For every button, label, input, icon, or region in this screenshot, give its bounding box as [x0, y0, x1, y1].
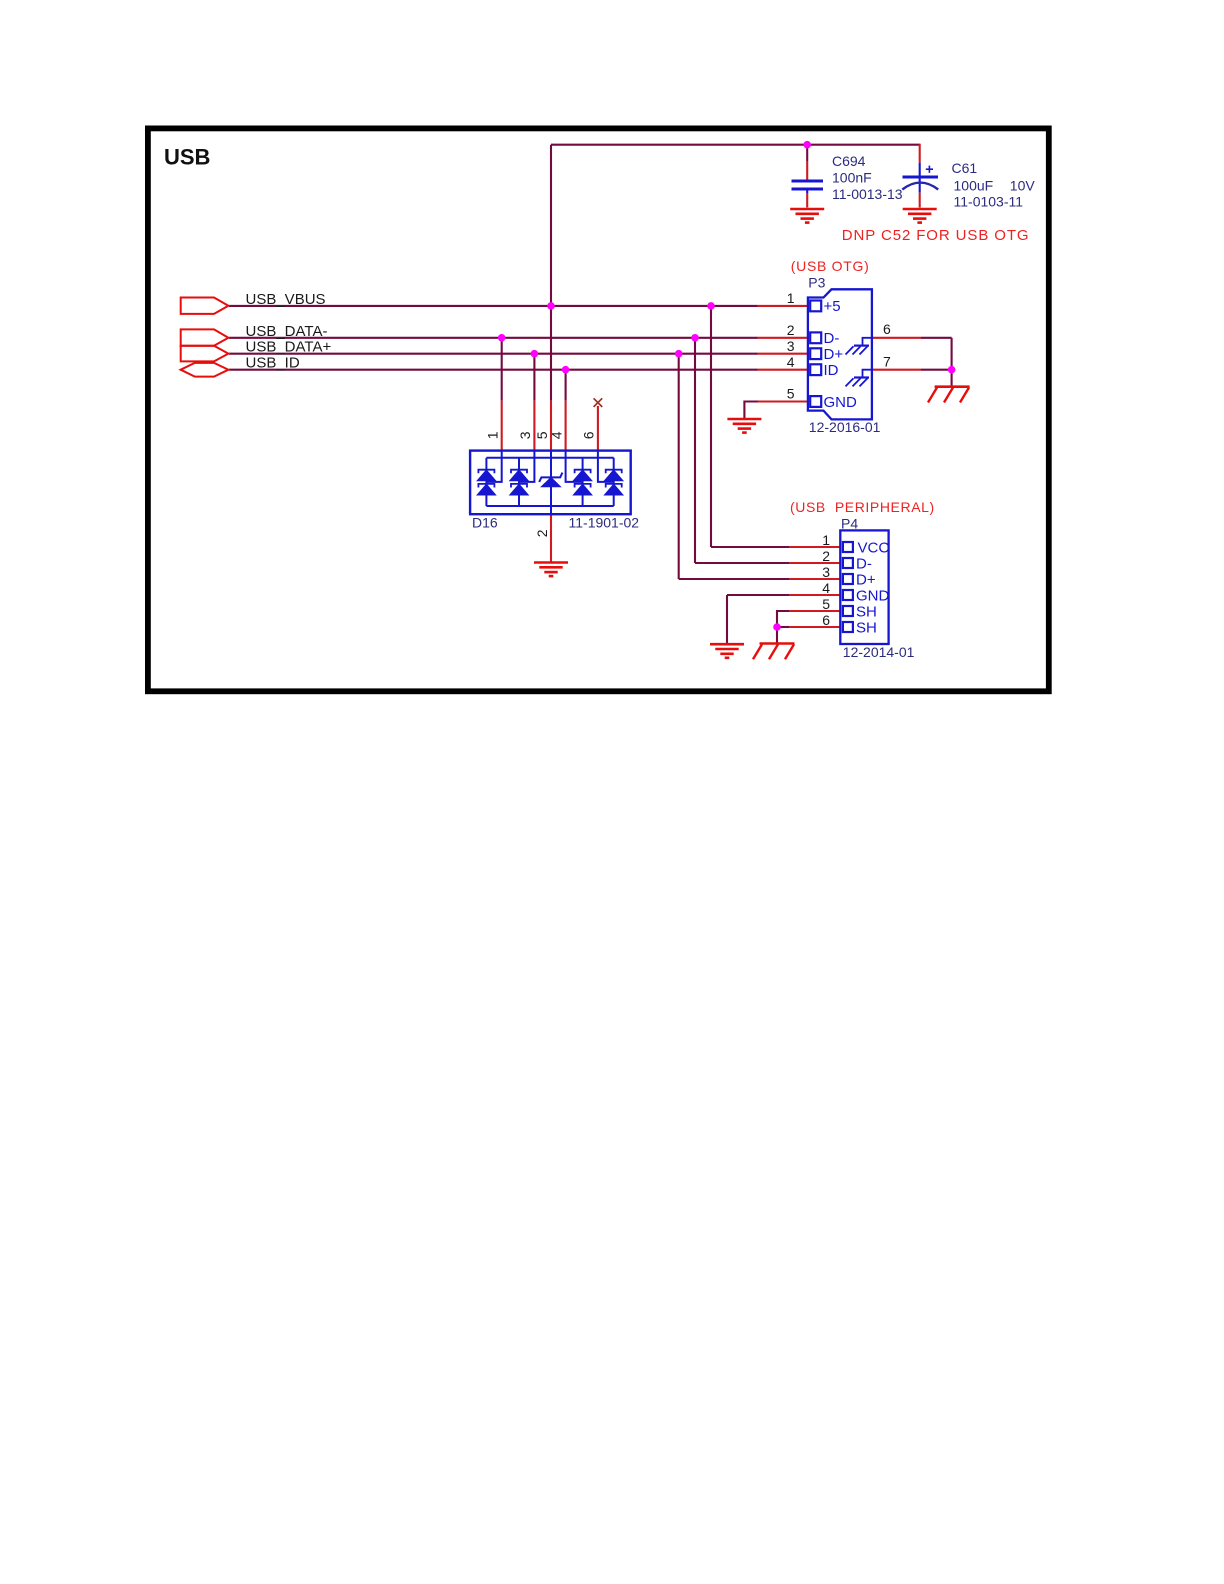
svg-text:10V: 10V — [1010, 177, 1036, 193]
D16 pin6 internal drop — [598, 451, 614, 482]
svg-text:12-2016-01: 12-2016-01 — [809, 419, 881, 435]
svg-text:USB_DATA-: USB_DATA- — [246, 323, 328, 340]
P4 pin squares — [843, 542, 853, 632]
svg-text:+5: +5 — [824, 298, 841, 315]
junction P3 pin7 / chassis — [948, 366, 956, 374]
wire D16 pin1 red stub — [501, 401, 503, 451]
svg-text:(USB OTG): (USB OTG) — [791, 258, 870, 274]
D16 diode column 4 — [613, 458, 615, 506]
D16 diode column 2 — [518, 458, 520, 506]
junction DATA- / riser to P4 D- — [691, 334, 699, 342]
net flag USB_VBUS — [181, 298, 229, 314]
chassis ground right of P3 — [928, 387, 970, 403]
svg-text:(USB PERIPHERAL): (USB PERIPHERAL) — [790, 499, 935, 515]
P3 internal shield symbol (pin 6) — [846, 338, 872, 355]
wire vertical riser DATA- to P4 D- — [694, 338, 696, 563]
svg-text:5: 5 — [787, 386, 795, 402]
svg-text:7: 7 — [883, 354, 891, 370]
wire P3 pin5 GND jog — [744, 402, 758, 419]
connector P3 body — [808, 289, 872, 419]
capacitor C61 value labels — [952, 160, 1036, 210]
net flag USB_DATA+ — [181, 346, 229, 362]
D16 diode column 3 — [582, 458, 584, 506]
wire C694 lower stub — [806, 190, 808, 194]
wire net USB_DATA+ horizontal — [229, 353, 758, 355]
svg-text:3: 3 — [517, 431, 533, 439]
svg-text:6: 6 — [581, 431, 597, 439]
D16 pin4 internal drop — [566, 451, 583, 482]
wire vertical riser DATA+ to D16 pin3 — [533, 354, 535, 401]
svg-text:D+: D+ — [824, 346, 844, 363]
svg-text:4: 4 — [548, 431, 564, 439]
diode array D16 body — [470, 451, 631, 515]
ground symbol below C61 — [903, 209, 937, 223]
wire P3 pin4 red stub — [758, 369, 808, 371]
ground symbol below C694 — [790, 209, 824, 223]
wire P3 pin5 GND red stub — [758, 400, 808, 402]
svg-text:2: 2 — [787, 322, 795, 338]
junction VBUS / riser to D16 pin5 — [547, 302, 555, 310]
P3 pin squares — [810, 301, 821, 407]
D16 pin5/pin2 internal column — [550, 451, 552, 515]
wire P4 pin2 red stub — [789, 562, 840, 564]
svg-text:100uF: 100uF — [954, 177, 994, 193]
svg-text:GND: GND — [856, 587, 890, 604]
D16 diode column 1 — [485, 458, 487, 506]
svg-text:P3: P3 — [808, 274, 825, 290]
wire P3 pin1 red stub — [758, 305, 808, 307]
wire vertical riser DATA+ to P4 D+ — [678, 354, 680, 579]
svg-text:SH: SH — [856, 619, 877, 636]
D16 internal top bus — [486, 457, 613, 459]
D16 pin1 internal drop — [486, 451, 501, 482]
D16 diode pairs — [478, 470, 622, 495]
wire P4 pin4 red stub — [789, 594, 840, 596]
junction P4 SH pins — [773, 623, 781, 631]
wire P4 pin1 horizontal — [711, 546, 789, 548]
wire net USB_ID horizontal — [229, 369, 758, 371]
svg-text:C694: C694 — [832, 153, 866, 169]
svg-text:USB_DATA+: USB_DATA+ — [246, 339, 332, 356]
wire P3 pin7 red stub — [873, 369, 922, 371]
svg-text:11-0013-13: 11-0013-13 — [832, 186, 903, 202]
no-connect X on D16 pin6 — [594, 398, 603, 407]
wire D16 pin4 red stub — [565, 401, 567, 451]
junction ID / riser to D16 pin4 — [562, 366, 570, 374]
wire P4 pin6 SH horizontal — [777, 626, 789, 628]
svg-text:D16: D16 — [472, 514, 498, 530]
svg-text:11-1901-02: 11-1901-02 — [569, 514, 640, 530]
P3 internal shield symbol (pin 7) — [846, 370, 872, 387]
svg-text:5: 5 — [822, 596, 830, 612]
svg-text:D+: D+ — [856, 571, 876, 588]
D16 internal bottom bus — [486, 505, 613, 507]
ground symbol P3 pin5 — [727, 419, 761, 433]
capacitor C694 plates — [792, 181, 824, 189]
svg-text:1: 1 — [822, 532, 830, 548]
wire P4 pin3 horizontal — [679, 578, 789, 580]
svg-text:GND: GND — [824, 394, 858, 411]
connector P4 body — [840, 530, 888, 644]
capacitor C61 (polarized) — [902, 166, 938, 190]
wire net USB_DATA- horizontal — [229, 337, 758, 339]
svg-text:3: 3 — [822, 564, 830, 580]
svg-text:11-0103-11: 11-0103-11 — [954, 193, 1024, 209]
wire C694 upper stub — [806, 145, 808, 161]
svg-text:D-: D- — [856, 555, 872, 572]
ground symbol P4 GND — [710, 644, 744, 658]
wire C61 upper stub — [919, 144, 921, 163]
svg-text:100nF: 100nF — [832, 169, 872, 185]
junction DATA- / riser to D16 pin1 — [498, 334, 506, 342]
wire P4 pin3 red stub — [789, 578, 840, 580]
wire P3 pin2 red stub — [758, 337, 808, 339]
wire P4 pin4 GND horizontal — [727, 594, 789, 596]
svg-text:P4: P4 — [841, 516, 858, 532]
chassis ground P4 shield — [753, 644, 795, 660]
wire vertical riser DATA- to D16 pin1 — [501, 338, 503, 401]
wire D16 pin5 red stub — [550, 401, 552, 451]
P4 pin numbers — [822, 532, 830, 628]
wire P4 pin5 SH jog — [777, 611, 789, 627]
svg-text:12-2014-01: 12-2014-01 — [843, 644, 915, 660]
P4 pin name labels — [856, 539, 890, 636]
svg-text:6: 6 — [883, 321, 891, 337]
wire P4 pin1 red stub — [789, 546, 840, 548]
svg-text:ID: ID — [824, 362, 839, 379]
wire P4 pin2 horizontal — [695, 562, 789, 564]
wire top VBUS bus to capacitors — [551, 144, 920, 146]
svg-text:6: 6 — [822, 612, 830, 628]
svg-text:2: 2 — [534, 529, 550, 537]
net flag USB_DATA- — [181, 329, 229, 345]
svg-text:1: 1 — [485, 431, 501, 439]
wire P3 pin3 red stub — [758, 353, 808, 355]
D16 center zener diode — [539, 473, 562, 482]
wire D16 pin2 red stub to ground — [550, 514, 552, 561]
junction top bus / C694 — [803, 141, 811, 149]
wire D16 pin6 red stub (no connect) — [597, 406, 599, 450]
svg-text:VCC: VCC — [858, 539, 890, 556]
wire D16 pin3 red stub — [533, 401, 535, 451]
wire P3 pin6 red stub — [873, 337, 922, 339]
schematic border frame — [148, 128, 1049, 691]
svg-text:2: 2 — [822, 548, 830, 564]
svg-text:4: 4 — [822, 580, 830, 596]
wire P4 pin5 red stub — [789, 610, 840, 612]
junction DATA+ / riser to P4 D+ — [675, 350, 683, 358]
wire P3 shield vertical to chassis — [951, 338, 953, 387]
svg-text:C61: C61 — [952, 160, 978, 176]
wire net USB_VBUS horizontal — [229, 305, 758, 307]
net flag USB_ID (bidirectional) — [181, 363, 229, 377]
P3 pin name labels — [824, 298, 858, 411]
wire P3 pin7 horizontal — [921, 369, 952, 371]
svg-text:D-: D- — [824, 330, 840, 347]
wire vertical riser ID to D16 pin4 — [565, 370, 567, 401]
wire P3 pin6 horizontal — [921, 337, 952, 339]
wire P4 pin6 red stub — [789, 626, 840, 628]
svg-text:USB_VBUS: USB_VBUS — [246, 291, 326, 308]
svg-text:4: 4 — [787, 354, 795, 370]
P3 pin numbers — [787, 290, 891, 402]
svg-text:USB_ID: USB_ID — [246, 355, 300, 372]
wire C61 lower stub — [919, 178, 921, 193]
svg-text:SH: SH — [856, 603, 877, 620]
svg-text:USB: USB — [164, 145, 210, 170]
wire vertical riser VBUS to P4 VCC — [710, 306, 712, 547]
wire P4 shield drop to chassis — [776, 627, 778, 643]
D16 pin3 internal drop — [519, 451, 534, 482]
wire P4 GND drop — [726, 595, 728, 643]
svg-text:5: 5 — [534, 431, 550, 439]
junction DATA+ / riser to D16 pin3 — [531, 350, 539, 358]
wire vertical riser VBUS to D16 pin5 — [550, 145, 552, 401]
svg-text:DNP C52 FOR USB OTG: DNP C52 FOR USB OTG — [842, 227, 1030, 244]
junction VBUS / riser to P4 VCC — [707, 302, 715, 310]
D16 pin numbers (rotated) — [485, 431, 597, 537]
ground symbol below D16 pin2 — [534, 563, 568, 577]
svg-text:3: 3 — [787, 338, 795, 354]
capacitor C694 value labels — [832, 153, 903, 202]
svg-text:1: 1 — [787, 290, 795, 306]
